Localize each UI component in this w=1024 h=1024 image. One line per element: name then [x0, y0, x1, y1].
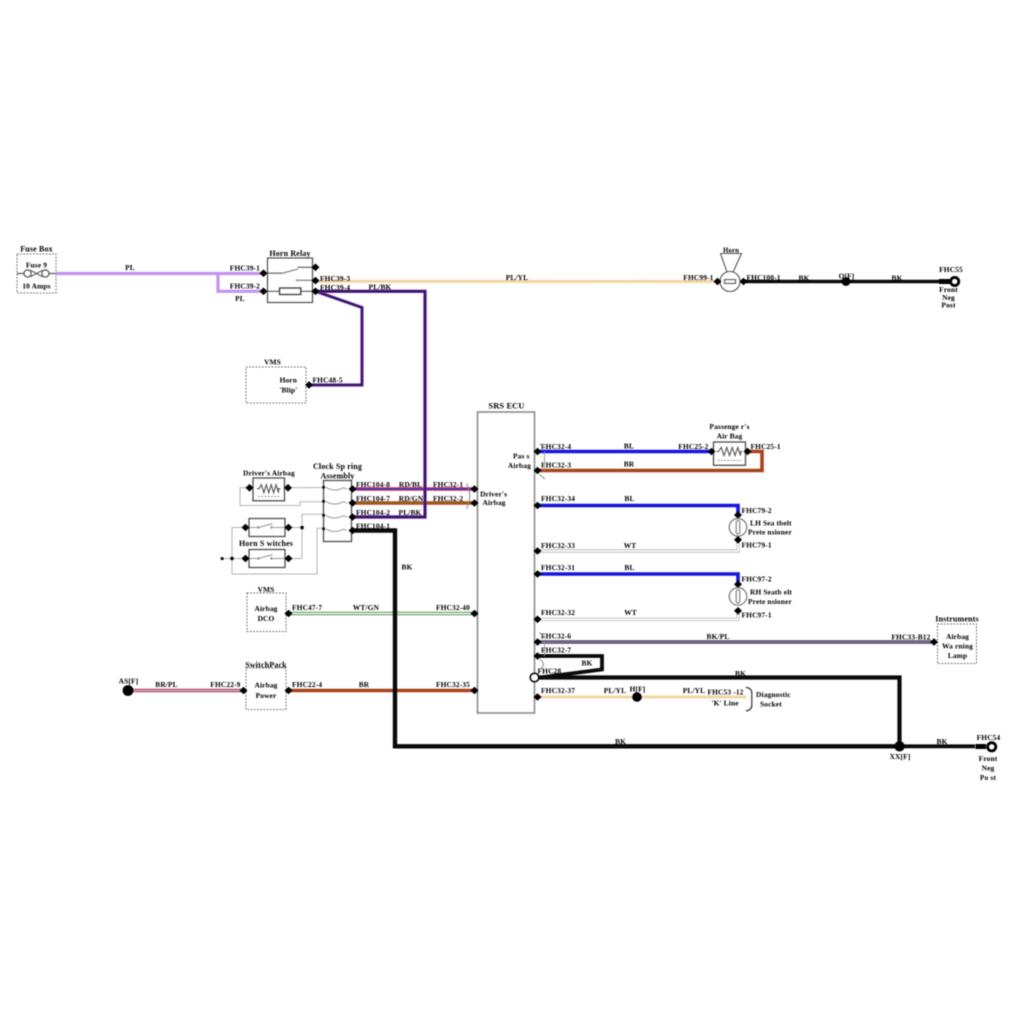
svg-text:SwitchPack: SwitchPack	[245, 660, 287, 669]
VMS airbag DCO module	[247, 585, 286, 632]
svg-text:Driver's Airbag: Driver's Airbag	[243, 469, 295, 478]
diagnostic socket	[746, 687, 791, 711]
svg-text:BK: BK	[892, 273, 903, 282]
pin FHC25-1	[744, 442, 781, 455]
svg-text:SRS ECU: SRS ECU	[488, 402, 524, 411]
svg-text:FHC55: FHC55	[939, 265, 963, 274]
svg-text:Post: Post	[941, 300, 956, 309]
pin FHC22-4	[285, 680, 323, 694]
wire BK junction O[F] to FHC55	[846, 273, 940, 282]
horn relay	[268, 249, 313, 303]
svg-text:Horn: Horn	[280, 376, 297, 385]
pin FHC39-4	[312, 283, 351, 295]
pin FHC33-B12	[891, 632, 938, 646]
wire driver airbag to clock spring row 1	[288, 487, 323, 489]
svg-text:10 Amps: 10 Amps	[22, 282, 50, 291]
pin FHC39-1	[230, 264, 268, 278]
junction O[F]	[839, 271, 855, 286]
svg-text:Po st: Po st	[980, 773, 997, 782]
svg-text:BR: BR	[624, 459, 635, 468]
svg-text:FHC33-B12: FHC33-B12	[891, 632, 930, 641]
svg-text:FHC47-7: FHC47-7	[292, 603, 322, 612]
svg-text:H[F]: H[F]	[630, 685, 646, 694]
horn switch 2 pins	[242, 555, 293, 563]
driver's airbag squib	[243, 469, 295, 501]
wire PL/BK relay FHC39-4 to clock spring FHC104-2	[316, 283, 426, 517]
svg-text:WT/GN: WT/GN	[353, 603, 380, 612]
pin FHC25-2	[678, 442, 715, 455]
svg-text:FHC48-5: FHC48-5	[313, 376, 343, 385]
pin FHC104-8	[349, 480, 391, 493]
svg-text:Airbag: Airbag	[508, 461, 531, 470]
svg-text:Socket: Socket	[760, 700, 782, 709]
svg-text:VMS: VMS	[258, 585, 275, 594]
svg-text:Horn Relay: Horn Relay	[269, 249, 310, 258]
clock spring assembly	[313, 462, 362, 541]
svg-text:VMS: VMS	[264, 357, 281, 366]
pin FHC39-3	[312, 274, 351, 285]
svg-text:BK: BK	[799, 273, 810, 282]
VMS horn blip module	[246, 357, 306, 403]
wire horn switch commons to clock spring row 4	[222, 528, 323, 575]
svg-text:XX[F]: XX[F]	[890, 752, 911, 761]
SRS ECU	[478, 402, 535, 713]
wire BK XX[F] to FHC54	[900, 737, 976, 746]
svg-text:Airbag: Airbag	[254, 604, 277, 613]
svg-text:BK: BK	[615, 737, 626, 746]
wire BL FHC32-34 to FHC79-2	[538, 494, 739, 513]
wire PL/YL relay FHC39-3 to horn FHC99-1	[316, 273, 718, 282]
RH seatbelt pretensioner	[729, 587, 792, 606]
pin FHC47-7	[285, 603, 323, 618]
svg-text:WT: WT	[624, 541, 637, 550]
pin FHC32-2	[433, 494, 479, 507]
pin FHC32-34	[534, 494, 576, 510]
svg-text:FHC22-9: FHC22-9	[210, 680, 240, 689]
svg-text:BR: BR	[359, 680, 370, 689]
pin FHC104-7	[349, 494, 391, 507]
svg-text:FHC32-37: FHC32-37	[541, 686, 575, 695]
horn switch 1	[249, 519, 285, 537]
svg-text:FHC32-31: FHC32-31	[541, 563, 575, 572]
svg-text:DCO: DCO	[258, 614, 275, 623]
svg-text:FHC25-2: FHC25-2	[678, 442, 708, 451]
svg-text:Fuse 9: Fuse 9	[26, 261, 47, 270]
svg-text:FHC104-7: FHC104-7	[356, 494, 390, 503]
svg-text:Fuse Box: Fuse Box	[20, 245, 53, 254]
wire PL/YL FHC32-37 to diagnostic socket	[538, 686, 747, 707]
svg-text:Wa rning: Wa rning	[942, 641, 973, 650]
svg-text:'Blip': 'Blip'	[279, 386, 297, 395]
pin FHC32-37	[534, 686, 576, 701]
terminal FHC55 front neg post	[939, 265, 963, 309]
pin FHC97-1	[734, 607, 772, 619]
wire WT/GN FHC47-7 to FHC32-40	[289, 603, 475, 614]
svg-text:PL/YL: PL/YL	[604, 686, 627, 695]
svg-text:FHC97-1: FHC97-1	[742, 610, 772, 619]
wire horn switch outputs to clock spring row 3	[289, 514, 324, 558]
pin FHC100-1	[740, 273, 781, 285]
pin FHC32-33	[534, 541, 576, 555]
svg-text:Pas s: Pas s	[513, 451, 530, 460]
svg-text:Airbag: Airbag	[482, 498, 505, 507]
wire BL FHC32-4 to FHC25-2	[538, 441, 712, 451]
wire BR/PL AS[F] to FHC22-9	[128, 680, 244, 691]
pin FHC97-2	[734, 574, 772, 588]
svg-text:'K' Line: 'K' Line	[711, 699, 739, 708]
svg-text:FHC97-2: FHC97-2	[742, 574, 772, 583]
svg-text:FHC79-1: FHC79-1	[742, 540, 772, 549]
svg-text:FHC32-40: FHC32-40	[436, 603, 470, 612]
svg-text:FHC32-6: FHC32-6	[541, 632, 571, 641]
svg-text:BL: BL	[624, 563, 634, 572]
horn switch 1 pins	[242, 524, 293, 532]
svg-text:Power: Power	[256, 691, 277, 700]
svg-text:Clock Sp ring: Clock Sp ring	[313, 462, 362, 471]
svg-text:BL: BL	[624, 441, 634, 450]
svg-text:PL: PL	[125, 263, 135, 272]
svg-text:FHC32-2: FHC32-2	[433, 494, 463, 503]
pin FHC32-4	[534, 442, 572, 455]
pin FHC32-1	[433, 480, 479, 493]
svg-text:FHC39-3: FHC39-3	[320, 274, 350, 283]
pin FHC79-2	[734, 506, 772, 519]
svg-text:FHC32-33: FHC32-33	[541, 541, 575, 550]
pin FHC39-2	[230, 281, 268, 295]
svg-text:FHC39-2: FHC39-2	[230, 281, 260, 290]
connector mark at FHC32-1/2	[467, 484, 470, 509]
svg-text:WT: WT	[624, 608, 637, 617]
svg-text:AS[F]: AS[F]	[119, 676, 139, 685]
svg-text:FHC100-1: FHC100-1	[747, 273, 781, 282]
svg-text:BK: BK	[402, 562, 413, 571]
svg-text:FHC39-1: FHC39-1	[230, 264, 260, 273]
svg-text:Prete nsioner: Prete nsioner	[748, 597, 792, 606]
pin FHC32-3	[534, 461, 572, 475]
fuse box (Fuse 9, 10 Amps)	[17, 245, 56, 294]
pin FHC32-32	[534, 608, 576, 623]
LH seatbelt pretensioner	[729, 518, 792, 536]
svg-text:FHC39-4: FHC39-4	[320, 283, 350, 292]
svg-text:FHC104-8: FHC104-8	[356, 480, 390, 489]
connector mark at FHC32-4/3	[540, 444, 546, 479]
horn	[720, 247, 742, 291]
wire BK FHC32-7 loop to FHC28	[538, 656, 603, 678]
svg-text:O[F]: O[F]	[839, 271, 855, 280]
svg-text:PL/YL: PL/YL	[506, 273, 529, 282]
wire BK horn to junction O[F]	[744, 273, 847, 282]
svg-text:Diagnostic: Diagnostic	[756, 690, 791, 699]
svg-text:BK: BK	[582, 659, 593, 668]
junction XX[F]	[890, 741, 911, 761]
pin FHC79-1	[734, 536, 772, 549]
svg-text:FHC104-1: FHC104-1	[356, 522, 390, 531]
svg-text:FHC32-35: FHC32-35	[436, 680, 470, 689]
svg-text:FHC22-4: FHC22-4	[292, 680, 322, 689]
svg-text:FHC32-32: FHC32-32	[541, 608, 575, 617]
svg-text:RD/GN: RD/GN	[399, 494, 424, 503]
svg-text:Airbag: Airbag	[254, 680, 277, 689]
pin FHC32-31	[534, 563, 576, 578]
wire WT FHC97-1 to FHC32-32	[538, 608, 739, 619]
svg-text:PL/BK: PL/BK	[369, 283, 392, 292]
wire WT FHC79-1 to FHC32-33	[538, 541, 739, 551]
svg-text:FHC32-4: FHC32-4	[541, 442, 571, 451]
svg-text:PL: PL	[235, 294, 245, 303]
svg-text:PL/BK: PL/BK	[399, 508, 422, 517]
svg-text:LH Sea tbelt: LH Sea tbelt	[750, 518, 792, 527]
pin FHC104-1	[349, 522, 391, 535]
svg-text:BK: BK	[937, 737, 948, 746]
svg-text:RD/BL: RD/BL	[399, 480, 422, 489]
fuse F9 symbol	[17, 270, 56, 277]
svg-text:FHC32-3: FHC32-3	[541, 461, 571, 470]
horn switch 2	[239, 539, 293, 568]
pin FHC32-7	[534, 646, 572, 660]
wire PL/BK relay FHC39-4 to VMS FHC48-5	[309, 291, 362, 385]
connector mark at FHC32-6/7	[540, 633, 546, 669]
svg-text:Passenge r's: Passenge r's	[709, 422, 749, 431]
svg-text:FHC32-1: FHC32-1	[433, 480, 463, 489]
pin FHC22-9	[210, 680, 247, 694]
wire BR FHC25-1 to FHC32-3	[538, 452, 763, 471]
svg-text:FHC99-1: FHC99-1	[683, 273, 713, 282]
svg-text:FHC53 -12: FHC53 -12	[707, 688, 743, 697]
pin FHC48-5	[305, 376, 343, 389]
junction horn switch outputs	[301, 526, 304, 529]
svg-text:FHC25-1: FHC25-1	[751, 442, 781, 451]
svg-text:Airbag: Airbag	[946, 632, 969, 641]
junction horn switch commons	[221, 557, 234, 560]
wire PL fuse box to relay FHC39-1 / FHC39-2	[56, 263, 264, 303]
svg-text:PL/YL: PL/YL	[683, 686, 706, 695]
wire BK FHC104-1 down to junction XX[F]	[353, 531, 898, 747]
svg-text:Front: Front	[979, 754, 998, 763]
pin FHC28	[530, 666, 561, 681]
pin FHC32-40	[436, 603, 479, 618]
svg-text:Assembly: Assembly	[320, 472, 354, 481]
pin FHC99-1	[683, 273, 721, 285]
terminal FHC54 front neg post	[976, 733, 1001, 782]
svg-text:RH Seatb elt: RH Seatb elt	[750, 587, 792, 596]
svg-text:Air Bag: Air Bag	[717, 432, 743, 441]
pin FHC104-2	[349, 508, 391, 521]
junction H[F]	[630, 685, 646, 702]
wire BR FHC22-4 to FHC32-35	[289, 680, 475, 691]
svg-text:Lamp: Lamp	[948, 651, 968, 660]
svg-text:FHC32-7: FHC32-7	[541, 646, 571, 655]
svg-text:Prete nsioner: Prete nsioner	[748, 528, 792, 537]
svg-text:FHC54: FHC54	[977, 733, 1001, 742]
svg-text:FHC104-2: FHC104-2	[356, 508, 390, 517]
svg-text:Instruments: Instruments	[935, 614, 978, 623]
pin FHC32-35	[436, 680, 479, 694]
wire RD/GN FHC104-7 to FHC32-2	[353, 494, 475, 503]
passenger's air bag squib	[709, 422, 749, 465]
relay switched output pin	[312, 264, 320, 272]
svg-text:Horn S witches: Horn S witches	[239, 539, 293, 548]
svg-text:FHC79-2: FHC79-2	[742, 506, 772, 515]
svg-text:BK/PL: BK/PL	[707, 632, 730, 641]
driver's airbag pins	[246, 484, 293, 492]
wire driver airbag return to clock spring row 2	[240, 488, 323, 506]
wire BK/PL FHC32-6 to FHC33-B12	[538, 632, 935, 642]
wire RD/BL FHC104-8 to FHC32-1	[353, 480, 475, 489]
pin FHC32-6	[534, 632, 572, 646]
svg-text:FHC32-34: FHC32-34	[541, 494, 575, 503]
wire BL FHC32-31 to FHC97-2	[538, 563, 739, 582]
svg-text:BR/PL: BR/PL	[155, 680, 178, 689]
node AS[F]	[119, 676, 139, 696]
svg-text:BK: BK	[735, 669, 746, 678]
svg-text:Neg: Neg	[982, 763, 995, 772]
svg-text:BL: BL	[624, 494, 634, 503]
instruments airbag warning lamp	[935, 614, 978, 663]
svg-text:FHC28: FHC28	[538, 666, 562, 675]
switchpack airbag power module	[245, 660, 287, 709]
wire BK FHC28 to junction XX[F]	[539, 669, 900, 743]
